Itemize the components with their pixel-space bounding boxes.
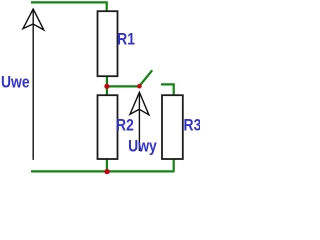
svg-text:Uwy: Uwy <box>128 137 157 156</box>
svg-text:R3: R3 <box>184 116 200 135</box>
svg-text:R1: R1 <box>117 30 135 49</box>
svg-text:Uwe: Uwe <box>1 73 30 92</box>
svg-text:R2: R2 <box>116 116 134 135</box>
